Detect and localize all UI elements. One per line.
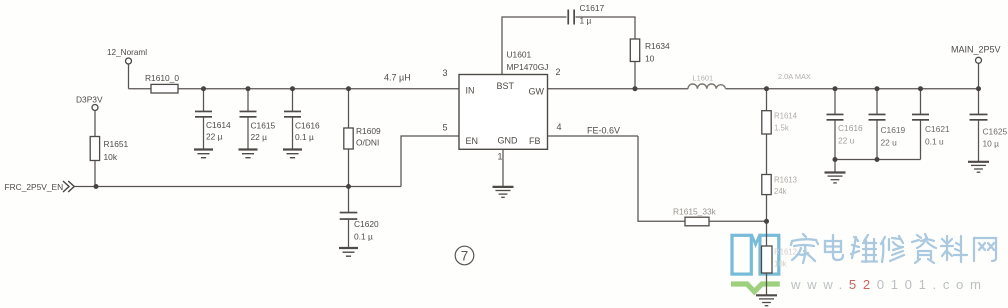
ground below C1625	[968, 162, 989, 172]
svg-text:MAIN_2P5V: MAIN_2P5V	[951, 45, 1001, 55]
watermark hanzi 网	[974, 238, 996, 261]
node D3P3V pin	[92, 105, 98, 111]
capacitor C1615	[240, 111, 257, 118]
wire C1621 leads	[920, 89, 922, 160]
junction bottom bus C1619	[875, 157, 880, 162]
svg-text:R1615_33k: R1615_33k	[673, 207, 717, 217]
resistor R1651	[90, 137, 99, 161]
wire divider top lead	[766, 89, 768, 111]
svg-text:2: 2	[556, 67, 561, 77]
wire R1609 top lead	[348, 89, 350, 128]
junction input rail R1609	[346, 86, 351, 91]
svg-text:C1625: C1625	[983, 127, 1008, 137]
svg-text:10: 10	[645, 54, 655, 64]
svg-text:10k: 10k	[774, 260, 787, 269]
ground below C1615	[239, 150, 258, 158]
svg-text:O/DNI: O/DNI	[356, 138, 379, 148]
junction input rail C1616	[290, 86, 295, 91]
svg-text:EN: EN	[466, 136, 479, 146]
svg-text:L1601: L1601	[693, 74, 714, 83]
wire EN riser to pin5	[401, 136, 459, 187]
watermark hanzi 电	[825, 235, 843, 260]
logo book center notch	[752, 235, 760, 244]
svg-text:C1619: C1619	[881, 125, 906, 135]
wire R1614 to R1613	[766, 134, 768, 175]
junction output rail C1621	[918, 86, 923, 91]
svg-text:C1620: C1620	[354, 219, 379, 229]
wire C1617 to R1634	[576, 17, 636, 39]
watermark hanzi 资	[912, 234, 936, 263]
wire C1614 leads	[203, 89, 205, 150]
svg-text:R1613: R1613	[774, 176, 797, 185]
wire FRC_2P5V_EN horizontal	[75, 186, 402, 188]
wire node to R1612	[766, 221, 768, 246]
wire R1613 to node	[766, 195, 768, 222]
svg-text:C1616: C1616	[295, 121, 320, 131]
capacitor C1617	[567, 10, 575, 25]
wire R1609 bottom lead	[348, 149, 350, 187]
wire bottom bus to ground	[834, 160, 836, 173]
ground below output bus	[825, 173, 846, 183]
node 12_Noraml pin	[126, 58, 132, 64]
wire C1615 leads	[247, 89, 249, 150]
wire GND pin1 drop	[502, 149, 504, 186]
svg-text:R1609: R1609	[356, 126, 381, 136]
resistor R1613	[762, 175, 771, 195]
ground below C1616	[283, 150, 302, 158]
wire C1625 leads	[978, 89, 980, 162]
svg-text:R1614: R1614	[774, 112, 798, 121]
watermark hanzi 修	[881, 236, 904, 262]
resistor R1634	[630, 39, 639, 62]
svg-text:D3P3V: D3P3V	[76, 95, 103, 105]
wire GW pin2 to inductor	[548, 88, 689, 90]
wire BST loop	[502, 17, 567, 75]
wire C1619 leads	[876, 89, 878, 160]
svg-text:FB: FB	[529, 136, 541, 146]
junction FB divider node	[764, 219, 769, 224]
junction input rail C1614	[201, 86, 206, 91]
logo green base	[731, 284, 780, 292]
junction EN net R1651	[94, 184, 99, 189]
svg-text:0.1 u: 0.1 u	[925, 137, 944, 147]
junction SW node R1634	[633, 86, 638, 91]
svg-text:4: 4	[557, 122, 562, 132]
svg-text:0.1 µ: 0.1 µ	[354, 232, 373, 242]
junction output rail C1619	[875, 86, 880, 91]
wire FB riser down	[638, 136, 685, 221]
wire C1620 leads	[348, 187, 350, 249]
svg-text:22 µ: 22 µ	[206, 132, 223, 142]
watermark hanzi 料	[941, 236, 967, 262]
ground below U1601 GND pin	[493, 187, 514, 197]
svg-text:R1612: R1612	[774, 248, 797, 257]
wire output bottom bus	[835, 159, 921, 161]
svg-text:12_Noraml: 12_Noraml	[107, 48, 147, 57]
svg-text:R1610_0: R1610_0	[145, 73, 179, 83]
svg-text:C1616: C1616	[838, 123, 863, 133]
wire input rail left of R1610	[129, 88, 152, 90]
wire D3P3V drop to R1651	[94, 111, 96, 137]
capacitor C1616	[284, 111, 301, 118]
wire 12_Noraml drop	[128, 64, 130, 89]
resistor R1610	[151, 84, 178, 93]
wire MAIN_2P5V drop	[978, 63, 980, 88]
junction output rail divider	[764, 86, 769, 91]
watermark hanzi 家	[791, 234, 818, 263]
svg-text:C1614: C1614	[206, 120, 231, 130]
wire R1651 bottom to EN net	[94, 161, 96, 187]
capacitor C1616B	[827, 114, 844, 121]
node MAIN_2P5V pin	[976, 57, 982, 63]
svg-text:R1634: R1634	[645, 41, 670, 51]
resistor R1614	[762, 111, 771, 134]
svg-text:1.5k: 1.5k	[774, 124, 789, 133]
ground below R1612	[756, 295, 777, 305]
svg-text:C1615: C1615	[251, 121, 276, 131]
svg-text:2.0A MAX: 2.0A MAX	[778, 72, 811, 81]
junction output rail MAIN	[976, 86, 981, 91]
wire C1616 leads	[292, 89, 294, 150]
svg-text:IN: IN	[466, 86, 475, 96]
logo book left page	[732, 235, 751, 274]
svg-text:10k: 10k	[104, 152, 118, 162]
svg-text:22 u: 22 u	[838, 136, 855, 146]
wire input rail R1610 to IC pin3	[178, 88, 459, 90]
wire R1612 to ground	[766, 273, 768, 295]
svg-text:FRC_2P5V_EN: FRC_2P5V_EN	[5, 182, 64, 192]
wire C1616B leads	[834, 89, 836, 160]
svg-text:24k: 24k	[774, 187, 787, 196]
svg-text:0.1 µ: 0.1 µ	[295, 132, 314, 142]
ground below C1620	[339, 248, 358, 256]
svg-text:GND: GND	[498, 136, 519, 146]
svg-text:C1617: C1617	[580, 3, 605, 13]
junction output rail C1616B	[833, 86, 838, 91]
svg-text:22 u: 22 u	[881, 138, 898, 148]
svg-text:GW: GW	[529, 87, 545, 97]
wire FB pin4 stub	[548, 135, 639, 137]
svg-text:5: 5	[443, 123, 448, 133]
capacitor C1619	[869, 114, 886, 121]
ground below C1614	[194, 150, 213, 158]
watermark hanzi 维	[851, 235, 877, 262]
capacitor C1621	[912, 114, 929, 121]
svg-text:R1651: R1651	[104, 139, 129, 149]
svg-text:3: 3	[443, 68, 448, 78]
svg-text:C1621: C1621	[925, 124, 950, 134]
inductor L1601	[688, 84, 726, 89]
capacitor C1625	[970, 114, 988, 121]
svg-text:BST: BST	[497, 81, 515, 91]
svg-text:1: 1	[498, 152, 503, 162]
svg-text:4.7 µH: 4.7 µH	[384, 73, 411, 83]
capacitor C1614	[195, 111, 212, 118]
resistor R1615	[685, 217, 709, 226]
logo book right page	[760, 235, 779, 274]
svg-text:22 µ: 22 µ	[251, 132, 268, 142]
node page ref circle 7	[455, 246, 474, 265]
capacitor C1620	[340, 212, 358, 220]
wire R1615 to divider node	[709, 220, 767, 222]
wire inductor to MAIN rail	[726, 88, 979, 90]
svg-text:www.520101.com: www.520101.com	[790, 277, 988, 292]
resistor R1609	[344, 128, 353, 149]
svg-text:7: 7	[461, 248, 469, 263]
wire R1634 bottom	[634, 62, 636, 89]
svg-text:U1601: U1601	[507, 50, 532, 60]
svg-text:FE-0.6V: FE-0.6V	[587, 126, 620, 136]
svg-text:MP1470GJ: MP1470GJ	[507, 62, 549, 72]
svg-text:1 µ: 1 µ	[580, 16, 592, 26]
node FRC_2P5V_EN chevron	[63, 181, 74, 192]
op-amp U1601 body	[459, 75, 548, 150]
junction EN net C1620	[346, 184, 351, 189]
junction bottom bus C1616B	[833, 157, 838, 162]
svg-text:10 µ: 10 µ	[983, 139, 1000, 149]
resistor R1612	[762, 246, 773, 273]
junction input rail C1615	[246, 86, 251, 91]
